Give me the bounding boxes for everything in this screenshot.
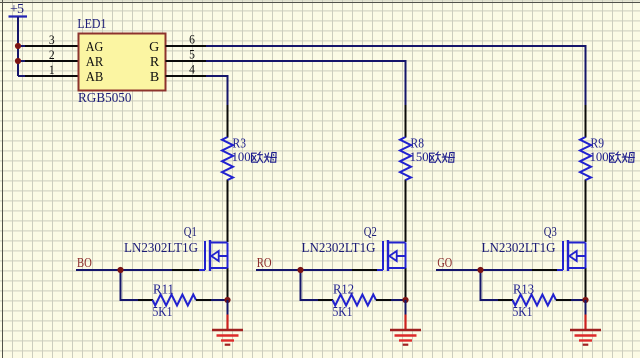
- svg-text:LN2302LT1G: LN2302LT1G: [482, 241, 556, 256]
- junction RO / Q2 gate: [297, 267, 303, 273]
- wire net B: pin 4 to R3: [206, 76, 228, 106]
- wire pin 3 to +5: [18, 45, 26, 47]
- svg-text:5K1: 5K1: [153, 305, 173, 320]
- svg-text:1: 1: [49, 62, 55, 77]
- Q3 gate pin lead: [532, 269, 557, 271]
- svg-text:4: 4: [189, 61, 195, 76]
- R11 right pin lead: [196, 299, 212, 301]
- svg-text:2: 2: [49, 47, 55, 62]
- svg-text:R11: R11: [153, 283, 174, 298]
- wire pin 1 to +5: [18, 75, 26, 77]
- wire GO branch down to R13: [481, 270, 500, 300]
- junction pin 3 / +5 rail: [15, 43, 21, 49]
- transistor Q1 N-MOSFET symbol: [198, 240, 228, 271]
- wire net R: pin 5 to R8: [206, 61, 406, 106]
- wire Q2 source to ground: [405, 300, 407, 316]
- svg-text:GO: GO: [437, 256, 452, 271]
- transistor Q3 N-MOSFET symbol: [556, 240, 586, 271]
- wire RO branch down to R12: [301, 270, 320, 300]
- svg-text:LN2302LT1G: LN2302LT1G: [124, 241, 198, 256]
- svg-text:Q2: Q2: [364, 225, 377, 240]
- svg-text:G: G: [149, 40, 159, 55]
- svg-text:5K1: 5K1: [513, 305, 533, 320]
- svg-text:BO: BO: [77, 256, 92, 271]
- svg-text:Q3: Q3: [544, 225, 557, 240]
- R8 pin leads / Q2 drain-source leads (net column): [405, 105, 407, 299]
- Q1 gate pin lead: [172, 269, 199, 271]
- value 100&#27431;&#22982;: [232, 150, 277, 164]
- svg-text:Q1: Q1: [184, 225, 197, 240]
- wire Q3 source to ground: [585, 300, 587, 316]
- wire R11 to Q1 source: [211, 299, 228, 301]
- ground Q2 source: [390, 315, 421, 345]
- transistor Q2 N-MOSFET symbol: [376, 240, 406, 271]
- Q2 gate pin lead: [352, 269, 377, 271]
- pin 6 lead: [166, 45, 207, 47]
- svg-text:5: 5: [189, 46, 195, 61]
- resistor R8: [400, 137, 411, 180]
- R13 right pin lead: [556, 299, 572, 301]
- wire R12 to Q2 source: [391, 299, 406, 301]
- power port +5: [9, 2, 28, 17]
- pin 3 lead: [25, 45, 79, 47]
- value 150&#27431;&#22982;: [410, 150, 455, 164]
- pin 2 lead: [25, 60, 79, 62]
- R9 pin leads / Q3 drain-source leads (net column): [585, 105, 587, 299]
- junction Q3 source / R13 / GND: [582, 297, 588, 303]
- wire Q1 source to ground: [227, 300, 229, 316]
- pin 5 lead: [166, 60, 207, 62]
- wire BO branch down to R11: [121, 270, 140, 300]
- R11 left pin lead: [138, 299, 153, 301]
- resistor R11: [153, 295, 197, 306]
- resistor R12: [333, 295, 377, 306]
- svg-text:AG: AG: [86, 40, 104, 55]
- svg-text:3: 3: [49, 32, 55, 47]
- svg-text:R: R: [150, 55, 160, 70]
- svg-text:LN2302LT1G: LN2302LT1G: [302, 241, 376, 256]
- svg-text:AB: AB: [86, 70, 104, 85]
- ground Q3 source: [570, 315, 601, 345]
- svg-text:5K1: 5K1: [333, 305, 353, 320]
- svg-text:+5: +5: [10, 2, 24, 17]
- ground Q1 source: [212, 315, 243, 345]
- svg-text:100: 100: [590, 150, 609, 164]
- R12 left pin lead: [318, 299, 333, 301]
- junction Q2 source / R12 / GND: [402, 297, 408, 303]
- resistor R9: [580, 137, 591, 180]
- resistor R3: [222, 137, 233, 180]
- junction Q1 source / R11 / GND: [224, 297, 230, 303]
- svg-text:R13: R13: [513, 283, 534, 298]
- wire net G: pin 6 to R9: [206, 46, 586, 106]
- pin 1 lead: [25, 75, 79, 77]
- value 100&#27431;&#22982;: [590, 150, 635, 164]
- junction GO / Q3 gate: [477, 267, 483, 273]
- svg-text:AR: AR: [86, 55, 104, 70]
- junction pin 2 / +5 rail: [15, 58, 21, 64]
- wire net BO to Q1 gate: [76, 269, 173, 271]
- wire +5 rail vertical: [17, 17, 19, 76]
- junction BO / Q1 gate: [117, 267, 123, 273]
- svg-text:B: B: [150, 70, 159, 85]
- LED LED1 body: [79, 34, 166, 91]
- wire net RO to Q2 gate: [256, 269, 353, 271]
- svg-text:150: 150: [410, 150, 429, 164]
- wire net GO to Q3 gate: [436, 269, 533, 271]
- svg-text:6: 6: [189, 31, 195, 46]
- svg-text:R12: R12: [333, 283, 354, 298]
- resistor R13: [513, 295, 557, 306]
- svg-text:LED1: LED1: [77, 17, 106, 32]
- R12 right pin lead: [376, 299, 392, 301]
- wire pin 2 to +5: [18, 60, 26, 62]
- wire R13 to Q3 source: [571, 299, 586, 301]
- R13 left pin lead: [498, 299, 513, 301]
- svg-text:100: 100: [232, 150, 251, 164]
- svg-text:RO: RO: [257, 256, 272, 271]
- pin 4 lead: [166, 75, 207, 77]
- svg-text:RGB5050: RGB5050: [78, 91, 132, 106]
- R3 pin leads / Q1 drain-source leads (net column): [227, 105, 229, 299]
